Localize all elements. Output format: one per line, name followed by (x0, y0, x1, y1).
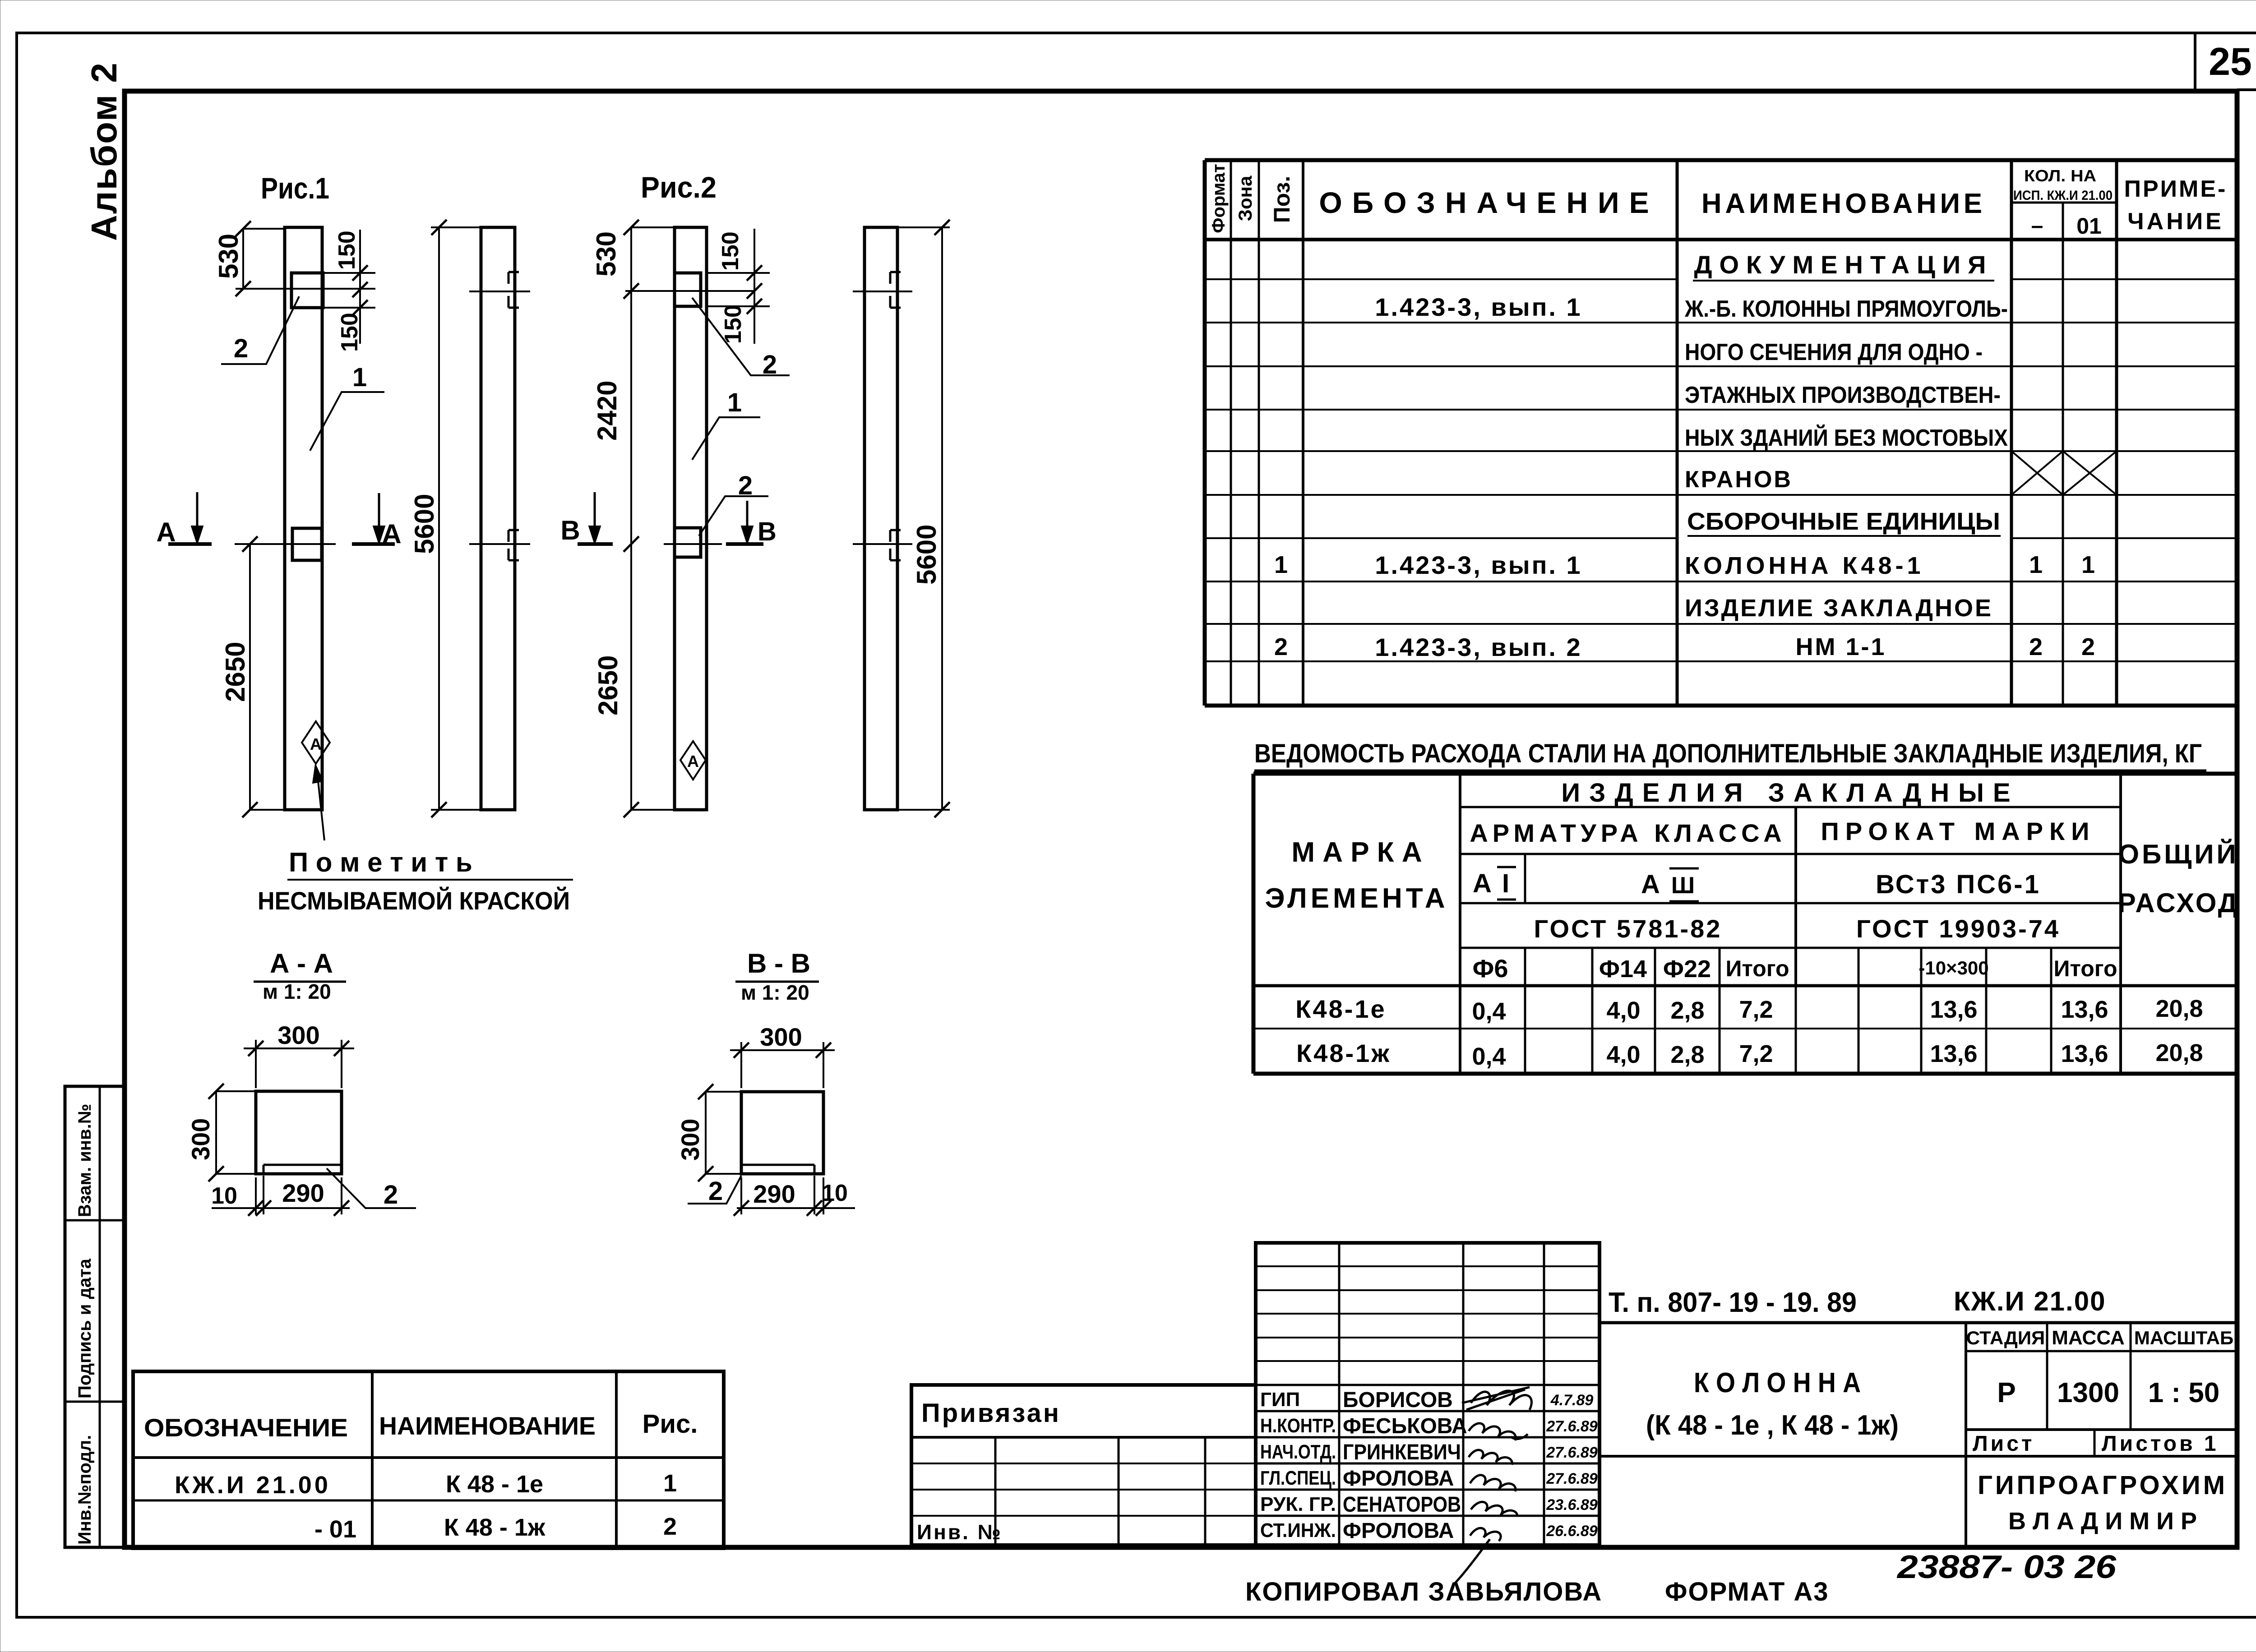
svg-text:А: А (382, 519, 401, 549)
svg-text:МАССА: МАССА (2052, 1327, 2125, 1349)
svg-text:А: А (310, 735, 322, 753)
svg-text:Рис.: Рис. (643, 1409, 698, 1439)
svg-text:5600: 5600 (911, 525, 942, 585)
svg-text:20,8: 20,8 (2155, 1039, 2203, 1066)
svg-text:300: 300 (277, 1021, 319, 1049)
svg-text:4.7.89: 4.7.89 (1550, 1392, 1594, 1409)
svg-text:20,8: 20,8 (2155, 995, 2203, 1022)
svg-text:1: 1 (727, 388, 742, 417)
svg-text:2,8: 2,8 (1670, 1041, 1704, 1068)
svg-text:СТАДИЯ: СТАДИЯ (1966, 1327, 2045, 1348)
svg-text:Лист: Лист (1973, 1432, 2034, 1456)
svg-text:300: 300 (186, 1118, 215, 1160)
svg-text:2: 2 (708, 1177, 723, 1206)
svg-text:1300: 1300 (2057, 1377, 2119, 1408)
svg-text:СТ.ИНЖ.: СТ.ИНЖ. (1260, 1519, 1336, 1541)
svg-text:0,4: 0,4 (1472, 998, 1506, 1025)
svg-text:–: – (2031, 214, 2043, 238)
svg-text:01: 01 (2076, 213, 2102, 239)
svg-text:ЭТАЖНЫХ ПРОИЗВОДСТВЕН-: ЭТАЖНЫХ ПРОИЗВОДСТВЕН- (1685, 382, 2001, 408)
svg-text:А: А (1473, 869, 1492, 898)
svg-text:НАИМЕНОВАНИЕ: НАИМЕНОВАНИЕ (379, 1412, 596, 1440)
svg-text:ИЗДЕЛИЕ ЗАКЛАДНОЕ: ИЗДЕЛИЕ ЗАКЛАДНОЕ (1685, 595, 1993, 622)
svg-text:П о м е т и т ь: П о м е т и т ь (289, 847, 472, 877)
svg-text:1.423-3, вып. 2: 1.423-3, вып. 2 (1375, 633, 1582, 661)
svg-text:К48-1е: К48-1е (1295, 995, 1386, 1023)
svg-text:300: 300 (760, 1023, 802, 1051)
svg-text:ГОСТ 19903-74: ГОСТ 19903-74 (1856, 914, 2060, 943)
svg-text:ИСП. КЖ.И 21.00: ИСП. КЖ.И 21.00 (2013, 188, 2113, 203)
svg-text:1 : 50: 1 : 50 (2148, 1377, 2220, 1408)
svg-text:7,2: 7,2 (1739, 996, 1773, 1023)
svg-text:13,6: 13,6 (2061, 996, 2108, 1023)
svg-text:СЕНАТОРОВ: СЕНАТОРОВ (1343, 1493, 1461, 1517)
svg-text:2650: 2650 (593, 655, 623, 715)
svg-text:ОБОЗНАЧЕНИЕ: ОБОЗНАЧЕНИЕ (1319, 186, 1659, 219)
svg-text:Итого: Итого (1725, 956, 1789, 981)
svg-text:ПРОКАТ МАРКИ: ПРОКАТ МАРКИ (1821, 817, 2096, 845)
svg-text:13,6: 13,6 (1930, 1040, 1977, 1067)
svg-text:5600: 5600 (409, 494, 439, 554)
svg-text:290: 290 (753, 1180, 795, 1208)
svg-text:НОГО СЕЧЕНИЯ ДЛЯ ОДНО -: НОГО СЕЧЕНИЯ ДЛЯ ОДНО - (1685, 339, 1983, 365)
svg-text:27.6.89: 27.6.89 (1546, 1444, 1598, 1461)
svg-text:290: 290 (282, 1179, 324, 1207)
svg-text:А: А (687, 752, 699, 771)
svg-text:ВСт3 ПС6-1: ВСт3 ПС6-1 (1876, 870, 2041, 899)
svg-text:Рис.1: Рис.1 (261, 171, 329, 205)
svg-text:Альбом 2: Альбом 2 (84, 62, 124, 241)
svg-text:-10×300: -10×300 (1919, 957, 1988, 978)
svg-text:Ф6: Ф6 (1473, 954, 1508, 983)
svg-text:НАИМЕНОВАНИЕ: НАИМЕНОВАНИЕ (1701, 188, 1986, 219)
svg-text:2: 2 (2029, 633, 2043, 660)
svg-text:К48-1ж: К48-1ж (1296, 1039, 1391, 1067)
svg-text:В: В (560, 515, 580, 545)
svg-text:1: 1 (663, 1470, 677, 1497)
svg-text:7,2: 7,2 (1739, 1040, 1773, 1067)
svg-text:ГЛ.СПЕЦ.: ГЛ.СПЕЦ. (1260, 1467, 1336, 1489)
svg-text:1.423-3, вып. 1: 1.423-3, вып. 1 (1375, 293, 1582, 321)
svg-text:ГИПРОАГРОХИМ: ГИПРОАГРОХИМ (1978, 1471, 2228, 1500)
svg-text:В: В (758, 517, 777, 546)
svg-text:Ф22: Ф22 (1663, 955, 1711, 983)
svg-text:Ф14: Ф14 (1599, 955, 1647, 983)
svg-text:ГИП: ГИП (1260, 1389, 1300, 1411)
svg-text:Рис.2: Рис.2 (641, 171, 717, 204)
svg-text:АРМАТУРА КЛАССА: АРМАТУРА КЛАССА (1470, 819, 1786, 847)
svg-text:- 01: - 01 (314, 1516, 356, 1543)
svg-text:2: 2 (663, 1513, 677, 1540)
svg-text:ИЗДЕЛИЯ ЗАКЛАДНЫЕ: ИЗДЕЛИЯ ЗАКЛАДНЫЕ (1561, 778, 2019, 808)
svg-text:Привязан: Привязан (921, 1398, 1061, 1428)
svg-text:150: 150 (717, 231, 744, 271)
svg-text:НАЧ.ОТД.: НАЧ.ОТД. (1260, 1441, 1336, 1463)
svg-text:10: 10 (822, 1180, 848, 1206)
svg-text:150: 150 (720, 305, 746, 344)
svg-text:БОРИСОВ: БОРИСОВ (1343, 1388, 1453, 1412)
svg-text:0,4: 0,4 (1472, 1043, 1506, 1070)
svg-text:ОБОЗНАЧЕНИЕ: ОБОЗНАЧЕНИЕ (144, 1413, 348, 1442)
svg-text:РАСХОД: РАСХОД (2118, 888, 2239, 918)
svg-text:27.6.89: 27.6.89 (1546, 1418, 1598, 1435)
svg-text:2: 2 (738, 471, 753, 500)
svg-text:13,6: 13,6 (1930, 996, 1977, 1023)
svg-text:КОЛ. НА: КОЛ. НА (2024, 166, 2096, 185)
svg-text:2420: 2420 (592, 381, 622, 441)
svg-text:25: 25 (2209, 40, 2252, 83)
svg-text:м 1: 20: м 1: 20 (263, 980, 331, 1003)
svg-text:КРАНОВ: КРАНОВ (1685, 466, 1793, 493)
svg-text:А: А (1641, 870, 1660, 899)
svg-text:К О Л О Н Н А: К О Л О Н Н А (1694, 1367, 1861, 1398)
svg-text:ОБЩИЙ: ОБЩИЙ (2118, 839, 2238, 869)
svg-text:Зона: Зона (1234, 175, 1256, 221)
svg-text:ФОРМАТ А3: ФОРМАТ А3 (1665, 1577, 1829, 1606)
svg-text:13,6: 13,6 (2061, 1040, 2108, 1067)
svg-text:530: 530 (213, 234, 244, 279)
svg-text:ЭЛЕМЕНТА: ЭЛЕМЕНТА (1265, 883, 1448, 914)
svg-text:2: 2 (384, 1180, 398, 1209)
svg-text:ГРИНКЕВИЧ: ГРИНКЕВИЧ (1343, 1440, 1461, 1464)
svg-text:Т. п. 807- 19 - 19. 89: Т. п. 807- 19 - 19. 89 (1609, 1287, 1857, 1318)
svg-text:2: 2 (1274, 633, 1288, 660)
svg-text:300: 300 (676, 1119, 704, 1161)
svg-text:СБОРОЧНЫЕ ЕДИНИЦЫ: СБОРОЧНЫЕ ЕДИНИЦЫ (1687, 508, 2000, 535)
svg-text:Поз.: Поз. (1269, 176, 1294, 223)
svg-text:1: 1 (2029, 551, 2043, 578)
svg-text:ФРОЛОВА: ФРОЛОВА (1343, 1519, 1454, 1543)
svg-text:ФЕСЬКОВА: ФЕСЬКОВА (1343, 1414, 1467, 1438)
svg-text:Инв. №: Инв. № (917, 1520, 1003, 1544)
svg-text:1: 1 (1274, 551, 1288, 578)
svg-text:НМ 1-1: НМ 1-1 (1795, 633, 1886, 660)
svg-text:Ж.-Б. КОЛОННЫ ПРЯМОУГОЛЬ-: Ж.-Б. КОЛОННЫ ПРЯМОУГОЛЬ- (1684, 296, 2008, 322)
svg-text:Подпись и дата: Подпись и дата (75, 1258, 95, 1398)
svg-text:530: 530 (591, 231, 621, 277)
svg-text:ПРИМЕ-: ПРИМЕ- (2124, 176, 2228, 202)
svg-text:Ш: Ш (1671, 872, 1695, 899)
svg-text:Формат: Формат (1209, 164, 1229, 233)
svg-text:1.423-3, вып. 1: 1.423-3, вып. 1 (1375, 551, 1582, 579)
svg-text:2650: 2650 (220, 642, 250, 702)
svg-text:I: I (1502, 869, 1509, 898)
svg-text:26.6.89: 26.6.89 (1546, 1523, 1598, 1540)
svg-text:1: 1 (2081, 551, 2095, 578)
svg-text:ВЕДОМОСТЬ РАСХОДА СТАЛИ НА ДОП: ВЕДОМОСТЬ РАСХОДА СТАЛИ НА ДОПОЛНИТЕЛЬНЫ… (1254, 739, 2202, 768)
svg-text:К 48 - 1ж: К 48 - 1ж (444, 1514, 546, 1541)
svg-text:Листов 1: Листов 1 (2102, 1432, 2219, 1456)
svg-text:ЧАНИЕ: ЧАНИЕ (2127, 208, 2224, 235)
svg-text:МАСШТАБ: МАСШТАБ (2134, 1327, 2233, 1348)
svg-text:150: 150 (337, 313, 363, 352)
svg-text:НЫХ ЗДАНИЙ БЕЗ МОСТОВЫХ: НЫХ ЗДАНИЙ БЕЗ МОСТОВЫХ (1685, 425, 2008, 451)
svg-text:М А Р К А: М А Р К А (1291, 837, 1422, 868)
svg-text:27.6.89: 27.6.89 (1546, 1470, 1598, 1487)
svg-text:150: 150 (334, 231, 360, 270)
svg-text:2: 2 (2081, 633, 2095, 660)
svg-text:А - А: А - А (270, 948, 333, 978)
svg-text:НЕСМЫВАЕМОЙ КРАСКОЙ: НЕСМЫВАЕМОЙ КРАСКОЙ (258, 886, 570, 915)
svg-text:ДОКУМЕНТАЦИЯ: ДОКУМЕНТАЦИЯ (1694, 250, 1993, 279)
svg-text:2: 2 (763, 350, 777, 379)
svg-text:м 1: 20: м 1: 20 (741, 981, 809, 1004)
svg-text:4,0: 4,0 (1606, 1041, 1640, 1068)
svg-text:В Л А Д И М И Р: В Л А Д И М И Р (2008, 1508, 2197, 1535)
svg-text:РУК. ГР.: РУК. ГР. (1260, 1493, 1336, 1515)
svg-text:Н.КОНТР.: Н.КОНТР. (1260, 1415, 1336, 1437)
svg-text:Инв.№подл.: Инв.№подл. (75, 1435, 95, 1545)
svg-text:КЖ.И 21.00: КЖ.И 21.00 (1954, 1286, 2106, 1316)
svg-text:4,0: 4,0 (1606, 997, 1640, 1024)
svg-text:Р: Р (1997, 1377, 2016, 1408)
svg-text:А: А (156, 517, 176, 547)
svg-text:2,8: 2,8 (1670, 997, 1704, 1024)
svg-text:В - В: В - В (747, 948, 810, 978)
svg-text:23887- 03 26: 23887- 03 26 (1896, 1549, 2117, 1585)
svg-text:10: 10 (211, 1183, 237, 1209)
svg-text:23.6.89: 23.6.89 (1546, 1496, 1598, 1514)
svg-text:2: 2 (234, 334, 248, 363)
svg-text:Взам. инв.№: Взам. инв.№ (75, 1104, 95, 1217)
svg-text:КОЛОННА К48-1: КОЛОННА К48-1 (1685, 552, 1924, 579)
svg-text:КЖ.И 21.00: КЖ.И 21.00 (175, 1472, 331, 1499)
svg-text:К 48 - 1е: К 48 - 1е (446, 1471, 543, 1498)
svg-text:1: 1 (352, 363, 367, 392)
svg-text:(К 48 - 1е , К 48 - 1ж): (К 48 - 1е , К 48 - 1ж) (1646, 1410, 1899, 1441)
svg-text:Итого: Итого (2053, 956, 2117, 981)
svg-text:ФРОЛОВА: ФРОЛОВА (1343, 1467, 1454, 1490)
svg-text:ГОСТ 5781-82: ГОСТ 5781-82 (1534, 914, 1722, 943)
svg-text:КОПИРОВАЛ ЗАВЬЯЛОВА: КОПИРОВАЛ ЗАВЬЯЛОВА (1245, 1577, 1602, 1606)
